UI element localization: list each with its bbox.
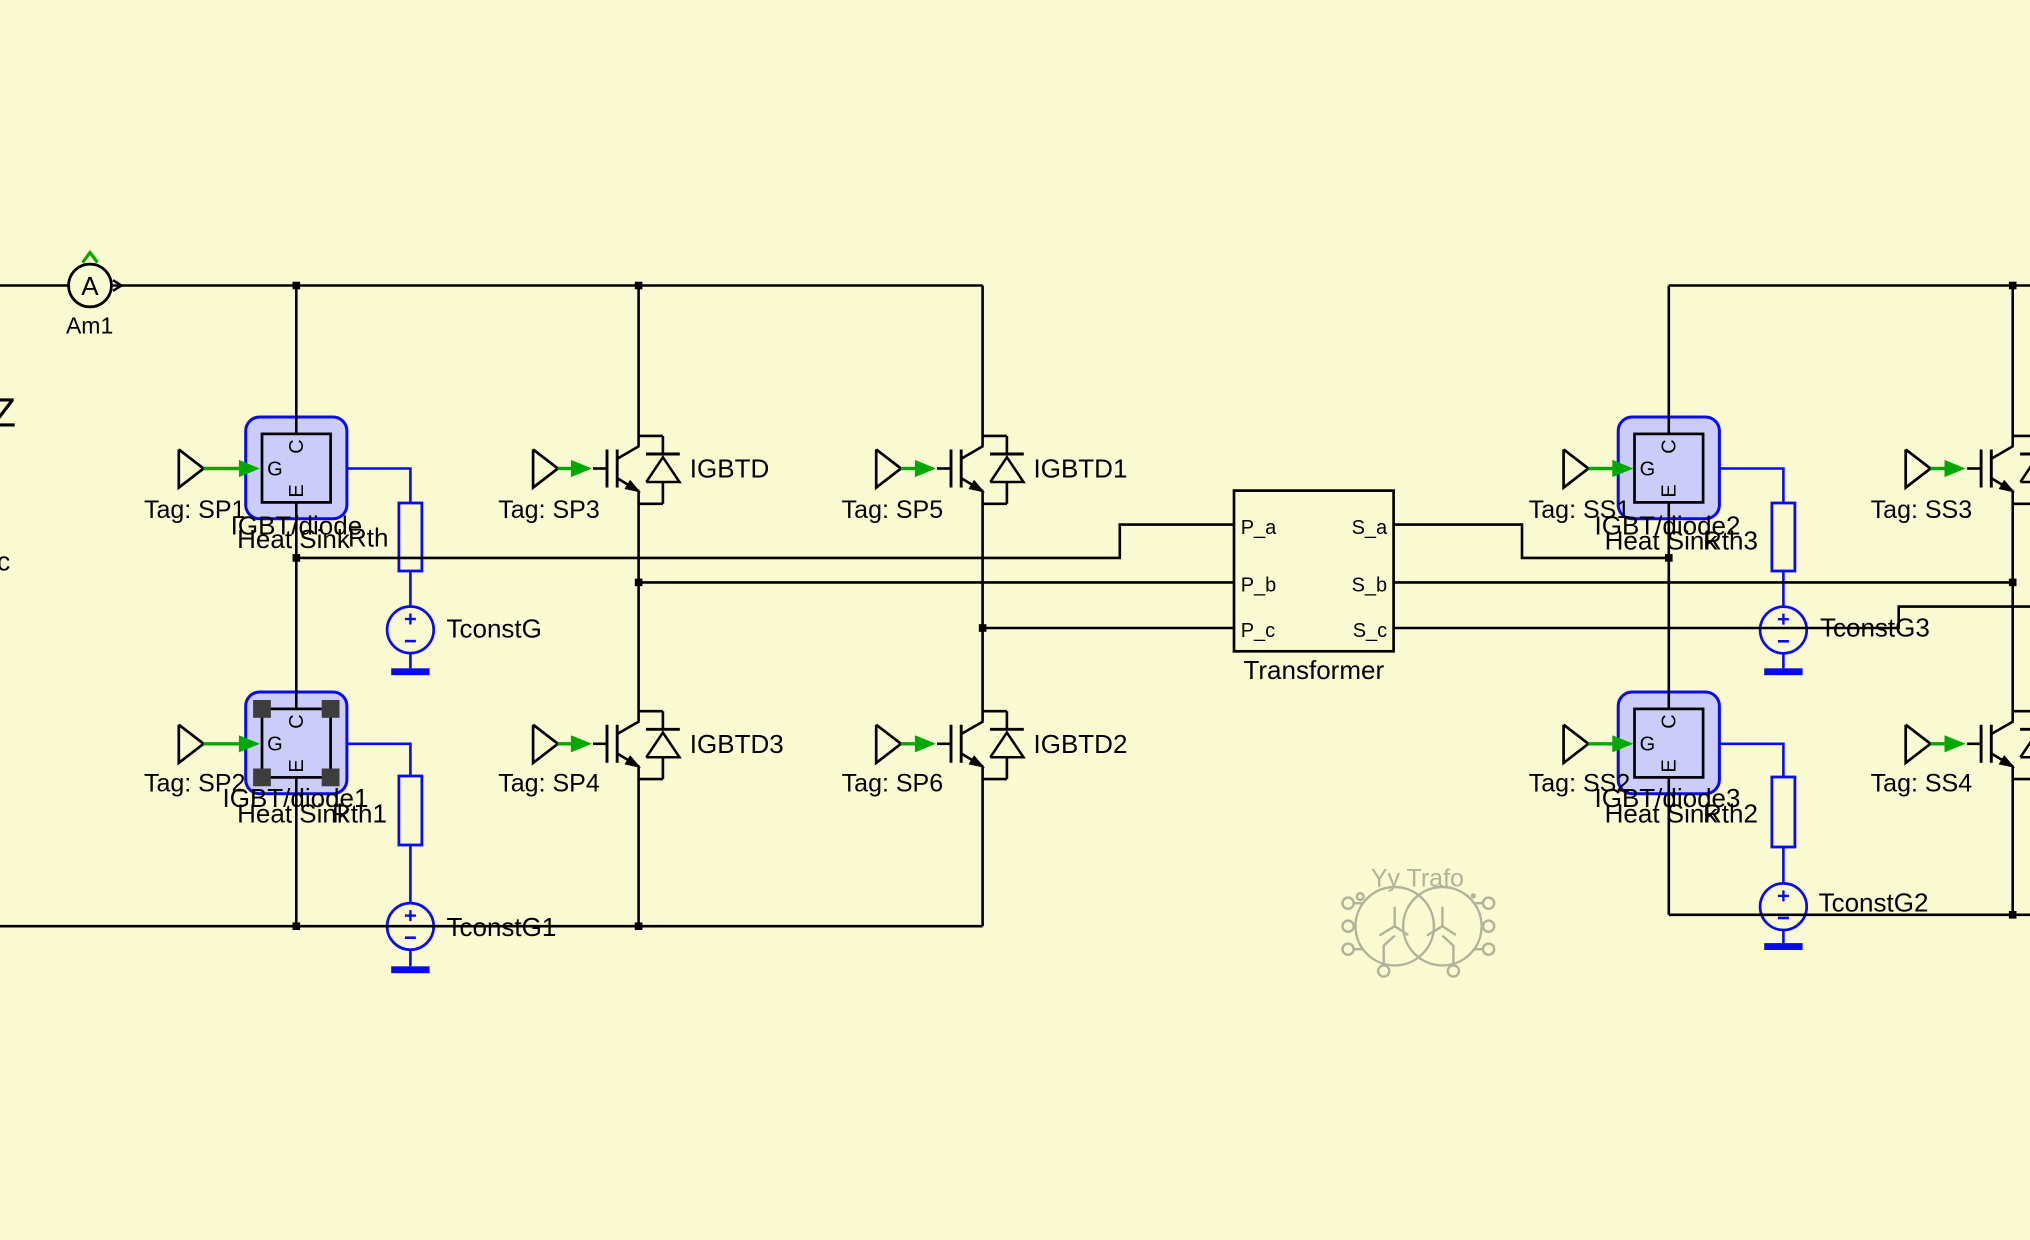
thermal wire TconstG1 to ground	[409, 950, 412, 967]
wire: IGBTD3 branch vertical (bottom)	[637, 767, 640, 927]
svg-text:Tag: SP4: Tag: SP4	[498, 770, 600, 798]
svg-text:Z: Z	[0, 390, 16, 436]
svg-text:E: E	[1658, 759, 1680, 772]
watermark: Yy Trafo transformer icon	[1343, 887, 1495, 977]
junction node (top rail / left column)	[293, 282, 301, 290]
green signal wire+arrow from tag SP4	[558, 735, 592, 752]
IGBT/diode (upper left) inner IGBT/diode subsystem square	[262, 434, 331, 503]
wire: transformer S_c off to the right	[1394, 607, 2030, 628]
IGBT w/ antiparallel diode IGBTD2	[937, 711, 1024, 779]
junction node S_b (secondary right branch)	[2009, 579, 2017, 587]
svg-text:G: G	[267, 458, 283, 480]
green measurement caret above Am1	[83, 253, 98, 263]
wire: secondary left column vertical, middle	[1668, 502, 1671, 709]
svg-text:Rth2: Rth2	[1703, 799, 1758, 829]
wire: secondary left column vertical, bottom	[1668, 777, 1671, 914]
wire: phase-a node to transformer P_a	[296, 525, 1234, 558]
thermal wire Rth to TconstG	[409, 571, 412, 607]
svg-text:Rth1: Rth1	[332, 799, 387, 829]
svg-text:Heat Sink: Heat Sink	[237, 524, 351, 554]
thermal resistor Rth3	[1772, 503, 1795, 571]
wire: left column vertical, IGBT/diode1 to bottom rail	[295, 777, 298, 926]
thermal ground ground below TconstG3	[1764, 668, 1802, 675]
thermal ground ground below TconstG1	[391, 966, 429, 973]
subsystem IGBT/diode3 (lower right): IGBT/diode with heat sink (blue rounded box)	[1618, 692, 1719, 794]
junction node c (IGBTD1 branch / P_c wire)	[979, 624, 987, 632]
svg-text:S_a: S_a	[1352, 517, 1388, 539]
svg-text:C: C	[1658, 439, 1680, 453]
green signal wire+arrow from tag SS2	[1588, 735, 1633, 752]
tag SP6: triangle source symbol	[876, 725, 901, 763]
thermal wire from IGBT/diode1 to Rth1	[347, 744, 411, 776]
svg-text:Heat Sink: Heat Sink	[1605, 799, 1719, 829]
thermal wire TconstG2 to ground	[1782, 930, 1785, 943]
IGBT/diode1 (lower left, selected) inner IGBT/diode subsystem square	[253, 700, 339, 786]
subsystem IGBT/diode1 (lower left, selected): IGBT/diode with heat sink (blue rounded box)	[246, 692, 347, 794]
svg-text:Am1: Am1	[66, 313, 113, 339]
green signal wire+arrow from tag SS4	[1931, 735, 1966, 752]
wire: IGBTD1 branch vertical (top)	[981, 286, 984, 446]
IGBT w/ antiparallel diode secondary upper (cut at edge)	[1967, 436, 2030, 504]
svg-text:TconstG3: TconstG3	[1820, 613, 1930, 643]
wire: left column vertical, top rail to IGBT/diode	[295, 286, 298, 434]
thermal wire from IGBT/diode3 to Rth2	[1719, 744, 1783, 777]
green signal wire+arrow from tag SS1	[1588, 460, 1633, 477]
wire: DC bottom rail (left bridge)	[0, 925, 983, 928]
tag SS4: triangle source symbol	[1906, 725, 1931, 763]
thermal ground ground below TconstG	[391, 668, 429, 675]
wire: node c to transformer P_c	[983, 627, 1234, 630]
svg-text:G: G	[1640, 458, 1656, 480]
thermal wire Rth3 to TconstG3	[1782, 571, 1785, 607]
junction node (top rail / IGBTD branch)	[635, 282, 643, 290]
junction node b (IGBTD branch / P_b wire)	[635, 579, 643, 587]
tag SP2: triangle source symbol	[179, 725, 204, 763]
thermal resistor Rth	[399, 503, 422, 571]
subsystem IGBT/diode2 (upper right): IGBT/diode with heat sink (blue rounded box)	[1618, 417, 1719, 519]
wire: transformer S_b to secondary node b	[1394, 581, 2013, 584]
tag SP1: triangle source symbol	[179, 449, 204, 487]
green signal wire+arrow from tag SS3	[1931, 460, 1966, 477]
constant temperature source TconstG1	[387, 903, 434, 950]
green signal wire+arrow from tag SP1	[204, 460, 260, 477]
tag SP3: triangle source symbol	[533, 449, 558, 487]
wire: secondary right branch vertical (top)	[2011, 286, 2014, 446]
svg-text:C: C	[286, 439, 308, 453]
svg-text:C: C	[1658, 714, 1680, 728]
green signal wire+arrow from tag SP5	[901, 460, 936, 477]
svg-text:Transformer: Transformer	[1243, 655, 1384, 685]
wire: secondary right branch vertical (middle)	[2011, 491, 2014, 721]
thermal resistor Rth1	[399, 776, 422, 845]
IGBT/diode3 (lower right) inner IGBT/diode subsystem square	[1635, 709, 1704, 778]
svg-text:E: E	[286, 759, 308, 772]
junction node (bottom rail / left column)	[293, 922, 301, 930]
svg-text:Rth3: Rth3	[1703, 525, 1758, 555]
thermal resistor Rth2	[1772, 777, 1795, 847]
svg-text:c: c	[0, 547, 10, 577]
svg-text:Rth: Rth	[348, 523, 388, 553]
constant temperature source TconstG	[387, 607, 434, 654]
thermal wire Rth1 to TconstG1	[409, 845, 412, 903]
svg-text:Tag: SS3: Tag: SS3	[1871, 496, 1972, 524]
svg-text:Heat Sink: Heat Sink	[1605, 525, 1719, 555]
svg-text:S_b: S_b	[1352, 575, 1388, 597]
thermal wire Rth2 to TconstG2	[1782, 847, 1785, 883]
tag SP5: triangle source symbol	[876, 449, 901, 487]
wire: top rail (secondary bridge)	[1669, 284, 2030, 287]
wire: transformer S_a to secondary node a	[1394, 525, 1669, 558]
svg-text:Tag: SP6: Tag: SP6	[842, 770, 943, 798]
thermal wire TconstG3 to ground	[1782, 653, 1785, 668]
svg-text:P_c: P_c	[1241, 620, 1275, 642]
svg-text:TconstG: TconstG	[447, 614, 542, 644]
junction node (secondary top rail)	[2009, 282, 2017, 290]
wire: IGBTD branch vertical (top)	[637, 286, 640, 446]
thermal wire from IGBT/diode2 to Rth3	[1719, 469, 1783, 504]
wire: DC top rail (left bridge)	[0, 284, 983, 287]
ammeter Am1	[69, 264, 112, 307]
green signal wire+arrow from tag SP3	[558, 460, 592, 477]
junction node S_a (secondary column)	[1665, 554, 1673, 562]
IGBT w/ antiparallel diode IGBTD1	[937, 436, 1024, 504]
thermal wire from IGBT/diode to Rth	[347, 469, 411, 504]
IGBT w/ antiparallel diode secondary lower (cut at edge)	[1967, 711, 2030, 779]
junction node (bottom rail / IGBTD3 branch)	[635, 922, 643, 930]
svg-text:IGBTD: IGBTD	[690, 453, 769, 483]
tag SS1: triangle source symbol	[1564, 449, 1589, 487]
IGBT w/ antiparallel diode IGBTD	[593, 436, 680, 504]
wire: bottom rail (secondary bridge)	[1669, 913, 2030, 916]
svg-text:TconstG1: TconstG1	[447, 912, 557, 942]
wire: secondary left column vertical, top	[1668, 286, 1671, 434]
svg-text:IGBTD1: IGBTD1	[1034, 453, 1128, 483]
thermal ground ground below TconstG2	[1764, 943, 1802, 950]
junction node (secondary bottom rail / right branch)	[2009, 911, 2017, 919]
tag SS3: triangle source symbol	[1906, 449, 1931, 487]
tag SP4: triangle source symbol	[533, 725, 558, 763]
svg-text:S_c: S_c	[1353, 620, 1387, 642]
transformer block (three-phase)	[1234, 491, 1394, 652]
svg-text:Tag: SP5: Tag: SP5	[842, 496, 943, 524]
ammeter output arrow	[113, 280, 122, 291]
svg-text:P_b: P_b	[1241, 575, 1277, 597]
svg-text:Yy Trafo: Yy Trafo	[1371, 864, 1464, 892]
subsystem IGBT/diode (upper left): IGBT/diode with heat sink (blue rounded box)	[246, 417, 347, 519]
wire: node b to transformer P_b	[639, 581, 1234, 584]
IGBT/diode2 (upper right) inner IGBT/diode subsystem square	[1635, 434, 1704, 503]
svg-text:E: E	[1658, 484, 1680, 497]
thermal wire TconstG to ground	[409, 653, 412, 668]
svg-text:G: G	[1640, 733, 1656, 755]
IGBT w/ antiparallel diode IGBTD3	[593, 711, 680, 779]
tag SS2: triangle source symbol	[1564, 725, 1589, 763]
wire: secondary right branch vertical (bottom)	[2011, 767, 2014, 915]
wire: IGBTD1-IGBTD2 branch vertical (middle)	[981, 491, 984, 721]
constant temperature source TconstG2	[1760, 883, 1807, 930]
wire: IGBTD-IGBTD3 branch vertical (middle)	[637, 491, 640, 721]
svg-text:A: A	[81, 271, 99, 301]
green signal wire+arrow from tag SP2	[204, 735, 260, 752]
svg-text:G: G	[267, 733, 283, 755]
svg-text:Tag: SS4: Tag: SS4	[1871, 770, 1973, 798]
svg-text:E: E	[286, 484, 308, 497]
svg-text:Tag: SP3: Tag: SP3	[498, 496, 599, 524]
wire: IGBTD2 branch vertical (bottom)	[981, 767, 984, 927]
svg-text:IGBTD2: IGBTD2	[1034, 729, 1128, 759]
wire: left column vertical through blocks to node a	[295, 502, 298, 709]
svg-text:P_a: P_a	[1241, 517, 1277, 539]
junction node a (left column / P_a wire)	[293, 554, 301, 562]
svg-text:C: C	[286, 714, 308, 728]
green signal wire+arrow from tag SP6	[901, 735, 936, 752]
svg-text:TconstG2: TconstG2	[1819, 888, 1929, 918]
svg-text:IGBTD3: IGBTD3	[690, 729, 784, 759]
constant temperature source TconstG3	[1760, 607, 1807, 654]
